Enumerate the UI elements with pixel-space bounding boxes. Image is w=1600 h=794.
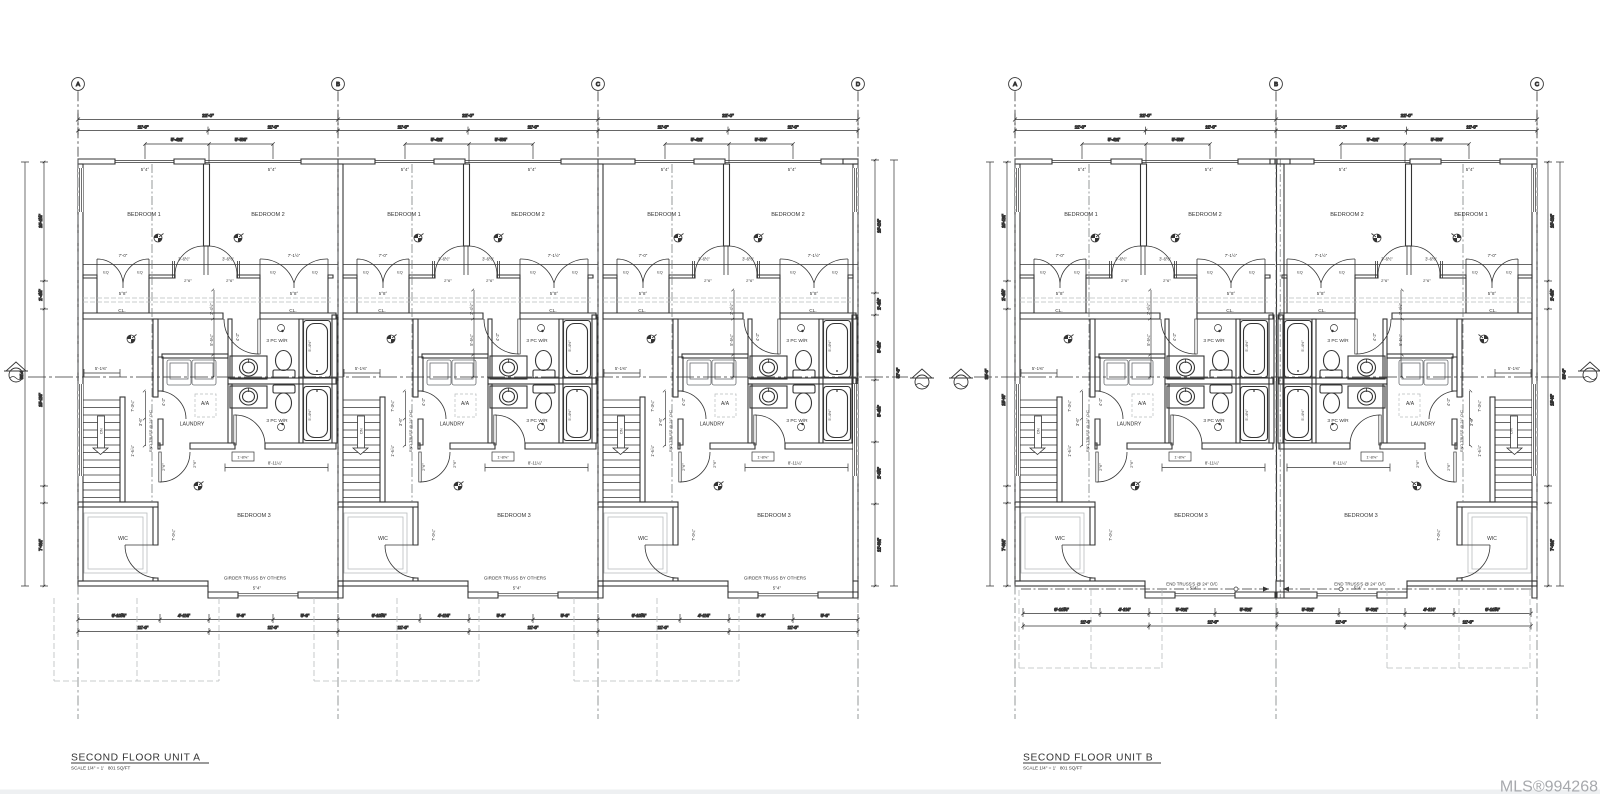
svg-text:5'-5⅜": 5'-5⅜" [495, 137, 508, 142]
svg-text:5'-1⅜": 5'-1⅜" [615, 366, 628, 371]
plan A top-right wall piece [843, 159, 858, 164]
svg-text:EQ: EQ [572, 271, 578, 275]
svg-text:11'-0": 11'-0" [658, 625, 669, 630]
svg-text:10'-1⅛": 10'-1⅛" [877, 219, 882, 233]
plan B party wall centreline [1279, 159, 1281, 598]
svg-text:BEDROOM 2: BEDROOM 2 [1330, 212, 1364, 218]
svg-text:EQ: EQ [1339, 271, 1345, 275]
svg-text:5'-6": 5'-6" [301, 613, 310, 618]
svg-text:BEDROOM 2: BEDROOM 2 [251, 212, 285, 218]
svg-text:11'-0": 11'-0" [268, 125, 279, 130]
svg-text:7'-1½": 7'-1½" [1225, 253, 1238, 258]
svg-text:A: A [76, 82, 80, 88]
svg-text:4'-2": 4'-2" [1372, 332, 1377, 341]
svg-text:5'-4¾": 5'-4¾" [1367, 137, 1380, 142]
svg-text:11'-0": 11'-0" [1466, 125, 1477, 130]
svg-text:2°6°: 2°6° [1098, 463, 1103, 471]
svg-text:DN: DN [1510, 428, 1514, 434]
svg-text:CL.: CL. [638, 308, 645, 314]
svg-text:LAUNDRY: LAUNDRY [180, 422, 205, 428]
gridline A [72, 78, 85, 91]
svg-text:15'-1⅜": 15'-1⅜" [38, 393, 43, 407]
svg-text:37'-0": 37'-0" [896, 367, 901, 378]
svg-text:7'-1½": 7'-1½" [548, 253, 561, 258]
svg-text:5'-1⅜": 5'-1⅜" [1032, 366, 1045, 371]
svg-text:2°6°: 2°6° [452, 460, 457, 468]
section cut line plan A [28, 376, 908, 378]
vertical dimension chain [1544, 161, 1552, 588]
svg-text:GIRDER TRUSS BY OTHERS: GIRDER TRUSS BY OTHERS [484, 576, 546, 581]
svg-text:CL.: CL. [1489, 308, 1496, 314]
svg-text:7'-0": 7'-0" [639, 253, 648, 258]
svg-text:EQ: EQ [530, 271, 536, 275]
svg-text:15'-⅜": 15'-⅜" [1550, 394, 1555, 406]
svg-text:12'-9¼": 12'-9¼" [877, 538, 882, 552]
svg-text:11'-0": 11'-0" [1336, 125, 1347, 130]
svg-text:END TRUSS'S @ 24" O/C: END TRUSS'S @ 24" O/C [1334, 582, 1385, 587]
svg-text:EQ: EQ [397, 271, 403, 275]
svg-text:6'-10⅞": 6'-10⅞" [112, 613, 127, 618]
svg-text:2'-4½": 2'-4½" [877, 298, 882, 310]
unit A2 [338, 159, 598, 598]
svg-text:4'-2": 4'-2" [421, 397, 426, 406]
svg-text:11'-0": 11'-0" [1075, 125, 1086, 130]
svg-text:5'-5¼": 5'-5¼" [1146, 334, 1151, 346]
svg-text:4'-2": 4'-2" [1098, 397, 1103, 406]
svg-text:5'-0¾": 5'-0¾" [1366, 607, 1379, 612]
svg-text:BEDROOM 3: BEDROOM 3 [237, 513, 271, 519]
svg-text:3'-6½": 3'-6½" [222, 257, 234, 262]
svg-text:2°6°: 2°6° [746, 278, 754, 283]
svg-text:15'-⅜": 15'-⅜" [1001, 394, 1006, 406]
svg-text:5'-6": 5'-6" [757, 613, 766, 618]
svg-text:A/A: A/A [721, 401, 730, 407]
svg-text:5'-5¼": 5'-5¼" [729, 334, 734, 346]
svg-text:22'-0": 22'-0" [1140, 113, 1152, 118]
svg-text:3 PC W/R: 3 PC W/R [1203, 338, 1225, 344]
svg-text:END TRUSS @ 24" O/C: END TRUSS @ 24" O/C [1459, 410, 1464, 452]
svg-text:5°4°: 5°4° [788, 167, 797, 172]
svg-text:22'-0": 22'-0" [202, 113, 214, 118]
svg-text:5°4°: 5°4° [773, 586, 782, 591]
svg-text:11'-0": 11'-0" [1336, 620, 1347, 625]
svg-text:36'-0": 36'-0" [1562, 368, 1567, 379]
svg-text:BEDROOM 3: BEDROOM 3 [1344, 513, 1378, 519]
svg-text:SCALE 1/4" = 1' 801 SQ/FT: SCALE 1/4" = 1' 801 SQ/FT [71, 766, 131, 771]
svg-text:5'-5¼": 5'-5¼" [1398, 334, 1403, 346]
svg-text:2°6°: 2°6° [704, 278, 712, 283]
section cut marker [949, 369, 973, 389]
svg-text:EQ: EQ [103, 271, 109, 275]
svg-text:C: C [1535, 82, 1539, 88]
svg-text:EQ: EQ [312, 271, 318, 275]
svg-text:5'-1⅜": 5'-1⅜" [355, 366, 368, 371]
svg-text:5'-4½": 5'-4½" [567, 340, 572, 352]
svg-text:3'-6": 3'-6" [138, 417, 143, 426]
svg-text:5'-5¾": 5'-5¾" [1302, 607, 1315, 612]
unit B1 [1015, 159, 1275, 598]
svg-text:DN: DN [360, 428, 364, 434]
svg-text:1'-6⅞": 1'-6⅞" [1067, 445, 1072, 457]
svg-text:2'-4½": 2'-4½" [1398, 303, 1403, 315]
svg-text:CL.: CL. [809, 308, 816, 314]
svg-text:5'-4½": 5'-4½" [567, 409, 572, 421]
svg-text:LAUNDRY: LAUNDRY [440, 422, 465, 428]
plan A right closing wall [853, 164, 858, 581]
svg-text:CL.: CL. [1055, 308, 1062, 314]
svg-text:6'-10⅞": 6'-10⅞" [372, 613, 387, 618]
svg-text:EQ: EQ [1297, 271, 1303, 275]
svg-text:D: D [856, 82, 860, 88]
svg-text:2'-4½": 2'-4½" [469, 303, 474, 315]
svg-text:LAUNDRY: LAUNDRY [1117, 422, 1142, 428]
svg-text:BEDROOM 3: BEDROOM 3 [1174, 513, 1208, 519]
svg-text:3'-6½": 3'-6½" [1425, 257, 1437, 262]
svg-text:5'-4¾": 5'-4¾" [171, 137, 184, 142]
svg-text:2°6°: 2°6° [1129, 460, 1134, 468]
svg-text:4'-2": 4'-2" [495, 332, 500, 341]
svg-text:DN: DN [1037, 428, 1041, 434]
svg-text:8'-11¼": 8'-11¼" [1205, 461, 1220, 466]
svg-text:7'-0¼": 7'-0¼" [1001, 539, 1006, 551]
svg-text:7'-1½": 7'-1½" [288, 253, 301, 258]
svg-text:4'-1⅛": 4'-1⅛" [698, 613, 711, 618]
svg-text:7'-0": 7'-0" [1488, 253, 1497, 258]
svg-text:1'-8⅝": 1'-8⅝" [237, 455, 249, 460]
svg-text:5'-6": 5'-6" [561, 613, 570, 618]
gridline C [592, 78, 605, 91]
svg-text:3 PC W/R: 3 PC W/R [1327, 418, 1349, 424]
svg-text:5°8°: 5°8° [1227, 291, 1236, 296]
plan B truss line right [1283, 588, 1531, 590]
svg-text:3'-6½": 3'-6½" [1115, 257, 1127, 262]
svg-text:MLS®994268: MLS®994268 [1500, 779, 1598, 794]
svg-text:3 PC W/R: 3 PC W/R [526, 418, 548, 424]
svg-text:7'-3¼": 7'-3¼" [1067, 400, 1072, 412]
svg-text:7'-3¼": 7'-3¼" [390, 400, 395, 412]
svg-text:5°8°: 5°8° [639, 291, 648, 296]
svg-text:11'-0": 11'-0" [788, 125, 799, 130]
svg-text:5'-4½": 5'-4½" [827, 340, 832, 352]
gridline C [1531, 78, 1544, 91]
svg-text:1'-8⅝": 1'-8⅝" [757, 455, 769, 460]
svg-text:WIC: WIC [378, 536, 388, 542]
svg-text:2°6°: 2°6° [1381, 278, 1389, 283]
svg-text:2°6°: 2°6° [1415, 460, 1420, 468]
svg-text:7'-1½": 7'-1½" [808, 253, 821, 258]
svg-text:5'-5⅜": 5'-5⅜" [755, 137, 768, 142]
svg-text:BEDROOM 2: BEDROOM 2 [771, 212, 805, 218]
svg-text:2°6°: 2°6° [1163, 278, 1171, 283]
svg-text:2°6°: 2°6° [712, 460, 717, 468]
lower roof dashed outline [1387, 590, 1530, 668]
svg-text:5'-6": 5'-6" [497, 613, 506, 618]
side wall windows [1532, 168, 1537, 476]
svg-text:END TRUSS @ 24" O/C: END TRUSS @ 24" O/C [668, 410, 673, 452]
svg-text:EQ: EQ [657, 271, 663, 275]
svg-text:5'-5⅜": 5'-5⅜" [1431, 137, 1444, 142]
top dimension line window spans [1080, 142, 1211, 163]
svg-text:11'-0": 11'-0" [398, 625, 409, 630]
svg-text:EQ: EQ [363, 271, 369, 275]
svg-text:EQ: EQ [1074, 271, 1080, 275]
svg-text:END TRUSS'S @ 24" O/C: END TRUSS'S @ 24" O/C [1166, 582, 1217, 587]
svg-text:3 PC W/R: 3 PC W/R [526, 338, 548, 344]
top dimension line 22ft [1013, 114, 1539, 126]
svg-text:11'-0": 11'-0" [1463, 620, 1474, 625]
svg-text:WIC: WIC [118, 536, 128, 542]
svg-text:3 PC W/R: 3 PC W/R [786, 338, 808, 344]
svg-text:5°8°: 5°8° [1056, 291, 1065, 296]
svg-text:1'-6⅞": 1'-6⅞" [130, 445, 135, 457]
svg-text:1'-8⅝": 1'-8⅝" [1366, 455, 1378, 460]
svg-text:BEDROOM 3: BEDROOM 3 [757, 513, 791, 519]
svg-text:2°6°: 2°6° [184, 278, 192, 283]
svg-text:EQ: EQ [832, 271, 838, 275]
svg-text:22'-0": 22'-0" [462, 113, 474, 118]
svg-text:5'-6": 5'-6" [237, 613, 246, 618]
svg-text:BEDROOM 2: BEDROOM 2 [1188, 212, 1222, 218]
svg-text:4'-1⅛": 4'-1⅛" [438, 613, 451, 618]
svg-text:BEDROOM 1: BEDROOM 1 [1064, 212, 1098, 218]
svg-text:4'-2": 4'-2" [235, 332, 240, 341]
svg-text:2°6°: 2°6° [226, 278, 234, 283]
svg-text:4'-2": 4'-2" [161, 397, 166, 406]
lower roof dashed outline [1019, 590, 1162, 668]
gridline A [1009, 78, 1022, 91]
svg-text:5'-4½": 5'-4½" [877, 405, 882, 417]
svg-text:A/A: A/A [1138, 401, 1147, 407]
svg-text:3'-6½": 3'-6½" [1159, 257, 1171, 262]
svg-text:2'-4½": 2'-4½" [729, 303, 734, 315]
svg-text:2°6°: 2°6° [161, 463, 166, 471]
svg-text:3'-6": 3'-6" [1469, 417, 1474, 426]
svg-text:8'-11¼": 8'-11¼" [788, 461, 803, 466]
svg-text:BEDROOM 1: BEDROOM 1 [127, 212, 161, 218]
svg-text:11'-0": 11'-0" [528, 625, 539, 630]
svg-text:11'-0": 11'-0" [1208, 620, 1219, 625]
svg-text:5'-4¾": 5'-4¾" [1108, 137, 1121, 142]
side wall windows [853, 168, 858, 476]
svg-text:1'-6⅞": 1'-6⅞" [390, 445, 395, 457]
svg-text:7'-0": 7'-0" [379, 253, 388, 258]
svg-text:11'-0": 11'-0" [788, 625, 799, 630]
svg-text:CL.: CL. [289, 308, 296, 314]
svg-text:2°6°: 2°6° [192, 460, 197, 468]
svg-text:5'-5⅜": 5'-5⅜" [1172, 137, 1185, 142]
svg-text:5°4°: 5°4° [661, 167, 670, 172]
svg-text:5'-4½": 5'-4½" [307, 340, 312, 352]
svg-text:SECOND FLOOR UNIT A: SECOND FLOOR UNIT A [71, 753, 201, 764]
svg-text:5'-6": 5'-6" [821, 613, 830, 618]
svg-text:6'-10⅞": 6'-10⅞" [632, 613, 647, 618]
top dimension line 11ft [1013, 127, 1539, 135]
svg-text:CL.: CL. [549, 308, 556, 314]
plan B central party wall [1277, 164, 1285, 581]
unit B2 (mirrored) [1277, 159, 1537, 598]
svg-text:5°4°: 5°4° [528, 167, 537, 172]
svg-text:5°8°: 5°8° [379, 291, 388, 296]
gridline B [332, 78, 345, 91]
svg-text:2'-4½": 2'-4½" [38, 289, 43, 301]
svg-text:EQ: EQ [1040, 271, 1046, 275]
svg-text:DN: DN [620, 428, 624, 434]
svg-text:5°8°: 5°8° [290, 291, 299, 296]
svg-text:7'-0¼": 7'-0¼" [38, 539, 43, 551]
svg-text:C: C [596, 82, 600, 88]
svg-text:5'-1⅜": 5'-1⅜" [95, 366, 108, 371]
svg-text:5'-4½": 5'-4½" [877, 341, 882, 353]
section cut marker [910, 369, 934, 389]
svg-text:7'-0¼": 7'-0¼" [431, 529, 436, 541]
svg-text:2°6°: 2°6° [486, 278, 494, 283]
svg-text:10'-1½": 10'-1½" [38, 214, 43, 228]
unit A1 [78, 159, 338, 598]
svg-text:5'-0¾": 5'-0¾" [1176, 607, 1189, 612]
gridline D [852, 78, 865, 91]
svg-text:END TRUSS @ 24" O/C: END TRUSS @ 24" O/C [148, 410, 153, 452]
svg-text:3'-6½": 3'-6½" [742, 257, 754, 262]
svg-text:8'-11¼": 8'-11¼" [528, 461, 543, 466]
svg-text:BEDROOM 1: BEDROOM 1 [647, 212, 681, 218]
svg-text:3 PC W/R: 3 PC W/R [266, 338, 288, 344]
svg-text:5'-5¾": 5'-5¾" [1240, 607, 1253, 612]
svg-text:11'-0": 11'-0" [528, 125, 539, 130]
svg-text:4'-2": 4'-2" [755, 332, 760, 341]
svg-text:3 PC W/R: 3 PC W/R [1203, 418, 1225, 424]
svg-text:5'-4¾": 5'-4¾" [691, 137, 704, 142]
top dimension line 22ft [76, 114, 860, 126]
vertical dimension chain [871, 159, 879, 588]
svg-text:5°8°: 5°8° [550, 291, 559, 296]
vertical dimension chain [1003, 161, 1011, 588]
svg-text:1'-6⅞": 1'-6⅞" [650, 445, 655, 457]
svg-text:END TRUSS @ 24" O/C: END TRUSS @ 24" O/C [408, 410, 413, 452]
svg-text:EQ: EQ [623, 271, 629, 275]
svg-text:4'-2": 4'-2" [1172, 332, 1177, 341]
svg-text:4'-2": 4'-2" [681, 397, 686, 406]
svg-text:5°8°: 5°8° [119, 291, 128, 296]
svg-text:5'-4½": 5'-4½" [1244, 409, 1249, 421]
svg-text:GIRDER TRUSS BY OTHERS: GIRDER TRUSS BY OTHERS [744, 576, 806, 581]
svg-text:3'-6": 3'-6" [398, 417, 403, 426]
svg-text:8'-11¼": 8'-11¼" [1333, 461, 1348, 466]
svg-text:SECOND FLOOR UNIT B: SECOND FLOOR UNIT B [1023, 753, 1153, 764]
lower roof dashed outline [54, 598, 219, 681]
svg-text:5°4°: 5°4° [513, 586, 522, 591]
svg-text:BEDROOM 1: BEDROOM 1 [387, 212, 421, 218]
svg-text:5°4°: 5°4° [1466, 167, 1475, 172]
svg-text:7'-1½": 7'-1½" [1315, 253, 1328, 258]
svg-text:7'-3¼": 7'-3¼" [650, 400, 655, 412]
svg-text:5'-5¼": 5'-5¼" [469, 334, 474, 346]
gridline B [1270, 78, 1283, 91]
svg-text:B: B [336, 82, 340, 88]
svg-text:2°6°: 2°6° [1423, 278, 1431, 283]
svg-text:3 PC W/R: 3 PC W/R [1327, 338, 1349, 344]
svg-text:4'-1⅛": 4'-1⅛" [1423, 607, 1436, 612]
section cut line plan B [974, 376, 1584, 378]
svg-text:11'-0": 11'-0" [138, 125, 149, 130]
section cut marker [4, 362, 28, 382]
svg-text:3 PC W/R: 3 PC W/R [786, 418, 808, 424]
svg-text:11'-0": 11'-0" [1081, 620, 1092, 625]
footer band [0, 790, 1600, 794]
svg-text:EQ: EQ [1249, 271, 1255, 275]
svg-text:5'-5⅜": 5'-5⅜" [235, 137, 248, 142]
svg-text:3'-6½": 3'-6½" [698, 257, 710, 262]
svg-text:7'-0": 7'-0" [119, 253, 128, 258]
svg-text:WIC: WIC [638, 536, 648, 542]
svg-text:36'-0": 36'-0" [984, 368, 989, 379]
svg-text:2'-4½": 2'-4½" [209, 303, 214, 315]
svg-text:2°6°: 2°6° [421, 463, 426, 471]
svg-text:CL.: CL. [118, 308, 125, 314]
svg-text:3'-6½": 3'-6½" [1381, 257, 1393, 262]
svg-text:5'-4½": 5'-4½" [827, 409, 832, 421]
svg-text:7'-0¼": 7'-0¼" [1108, 529, 1113, 541]
svg-text:2'-4½": 2'-4½" [1550, 289, 1555, 301]
svg-text:4'-1⅛": 4'-1⅛" [178, 613, 191, 618]
svg-text:BEDROOM 3: BEDROOM 3 [497, 513, 531, 519]
svg-text:2°6°: 2°6° [1121, 278, 1129, 283]
svg-text:2°6°: 2°6° [444, 278, 452, 283]
svg-text:5°4°: 5°4° [253, 586, 262, 591]
plan B top wall centre piece [1270, 159, 1290, 164]
svg-text:3'-6": 3'-6" [1075, 417, 1080, 426]
side wall windows [1015, 168, 1020, 476]
svg-text:5'-4½": 5'-4½" [1244, 340, 1249, 352]
svg-text:5'-4½": 5'-4½" [1300, 409, 1305, 421]
plan B truss line left [1021, 588, 1269, 590]
svg-text:A/A: A/A [1406, 401, 1415, 407]
svg-text:11'-0": 11'-0" [268, 625, 279, 630]
svg-text:3'-6": 3'-6" [658, 417, 663, 426]
svg-text:22'-0": 22'-0" [722, 113, 734, 118]
svg-text:5°4°: 5°4° [1339, 167, 1348, 172]
svg-text:10'-1¾": 10'-1¾" [1550, 214, 1555, 228]
svg-text:A: A [1013, 82, 1017, 88]
svg-text:5°8°: 5°8° [1317, 291, 1326, 296]
svg-text:7'-0": 7'-0" [1056, 253, 1065, 258]
svg-text:7'-0¼": 7'-0¼" [691, 529, 696, 541]
svg-text:DN: DN [100, 428, 104, 434]
svg-text:5°4°: 5°4° [1078, 167, 1087, 172]
svg-text:5°4°: 5°4° [401, 167, 410, 172]
svg-text:END TRUSS @ 24" O/C: END TRUSS @ 24" O/C [1085, 410, 1090, 452]
svg-text:6'-10⅞": 6'-10⅞" [1054, 607, 1069, 612]
side wall windows [78, 168, 83, 476]
svg-text:CL.: CL. [1226, 308, 1233, 314]
svg-text:5°8°: 5°8° [1488, 291, 1497, 296]
svg-text:5'-4½": 5'-4½" [1300, 340, 1305, 352]
svg-text:5°8°: 5°8° [810, 291, 819, 296]
svg-text:WIC: WIC [1055, 536, 1065, 542]
svg-text:6'-10⅞": 6'-10⅞" [1485, 607, 1500, 612]
svg-text:3'-6½": 3'-6½" [438, 257, 450, 262]
svg-text:A/A: A/A [461, 401, 470, 407]
svg-text:11'-0": 11'-0" [138, 625, 149, 630]
svg-text:5°4°: 5°4° [1205, 167, 1214, 172]
top dimension line 11ft [76, 127, 860, 135]
svg-text:10'-1¾": 10'-1¾" [1001, 214, 1006, 228]
svg-text:5°4°: 5°4° [141, 167, 150, 172]
svg-text:EQ: EQ [1472, 271, 1478, 275]
svg-text:EQ: EQ [790, 271, 796, 275]
svg-text:3'-6½": 3'-6½" [178, 257, 190, 262]
svg-text:CL.: CL. [1318, 308, 1325, 314]
svg-text:B: B [1274, 82, 1278, 88]
